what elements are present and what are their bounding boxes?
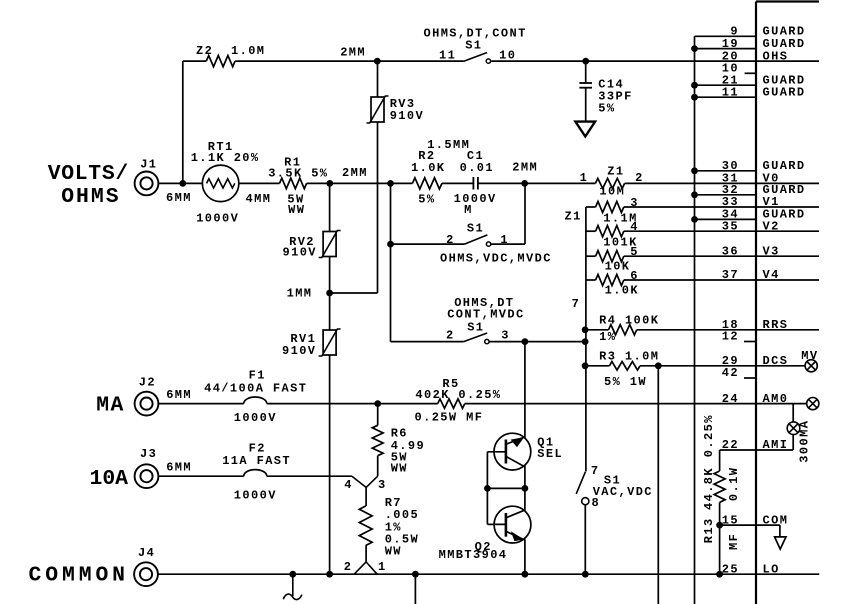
wire Q2 base: [487, 488, 506, 524]
svg-text:1: 1: [580, 171, 589, 185]
svg-text:MF: MF: [727, 533, 741, 550]
wire S1 pin10 to OHS pin 20: [491, 60, 819, 62]
svg-text:36: 36: [722, 244, 739, 258]
node S1 pin8 junction: [582, 571, 589, 578]
connector edge card: [756, 2, 819, 604]
pin 15 net COM: [722, 513, 789, 527]
wire guard pin 21: [691, 82, 756, 89]
svg-text:2: 2: [446, 233, 455, 247]
svg-text:J4: J4: [138, 546, 155, 560]
svg-text:0.1W: 0.1W: [727, 467, 741, 501]
pin 42: [722, 366, 739, 380]
svg-text:R13: R13: [702, 517, 716, 543]
connector J1: [135, 158, 159, 196]
node Q1/Q2 base-emitter tie: [484, 485, 528, 492]
switch S1 OHMS,DT CONT,MVDC pins 2-3: [391, 296, 586, 344]
svg-text:2MM: 2MM: [512, 161, 538, 175]
svg-text:RRS: RRS: [763, 318, 789, 332]
varistor RV2 910V: [319, 231, 341, 258]
svg-text:1: 1: [378, 560, 387, 574]
svg-text:OHMS: OHMS: [61, 185, 120, 209]
resistor R4 100K 1%: [582, 313, 819, 344]
svg-text:V3: V3: [763, 244, 780, 258]
resistor R7 .005 1% 0.5W WW: [359, 487, 419, 562]
wire J2 to F1: [158, 388, 244, 404]
svg-text:R4 100K: R4 100K: [599, 313, 659, 327]
svg-text:12: 12: [722, 330, 739, 344]
wire C1 to Z1 with 2MM label: [478, 161, 596, 184]
svg-text:910V: 910V: [282, 344, 316, 358]
lamp MV indicator DCS: [801, 349, 818, 372]
svg-text:910V: 910V: [390, 109, 424, 123]
wire RT1 to R1 with 4MM label: [239, 183, 280, 206]
node VOLTS/OHMS input label: [48, 162, 129, 209]
svg-text:1000V: 1000V: [454, 192, 497, 206]
resistor R13 44.8K 0.25% 0.1W MF: [702, 414, 741, 574]
svg-text:3: 3: [630, 196, 639, 210]
svg-text:Z1: Z1: [565, 210, 582, 224]
node R3 output junction: [655, 362, 662, 369]
svg-text:S1: S1: [465, 38, 482, 52]
svg-text:6MM: 6MM: [166, 191, 192, 205]
node COM tap junction: [716, 522, 723, 529]
svg-text:6: 6: [630, 269, 639, 283]
node shunt kelvin pins 4-3: [344, 476, 386, 492]
svg-text:37: 37: [722, 268, 739, 282]
svg-text:402K 0.25%: 402K 0.25%: [415, 388, 501, 402]
resistor R5 402K 0.25% 0.25W MF: [415, 377, 502, 424]
wire stub pin 12: [744, 341, 756, 343]
wire S1 pin3 node down to Q1 collector: [524, 342, 526, 438]
node rail junction off-page branch: [412, 571, 419, 604]
wire junction down to S1 OHMS,VDC,MVDC: [390, 183, 392, 341]
pin 25 net LO: [722, 562, 780, 576]
svg-text:10M: 10M: [599, 184, 625, 198]
svg-text:0.01: 0.01: [460, 161, 494, 175]
transistor Q1 SEL: [494, 433, 563, 470]
svg-text:10K: 10K: [605, 259, 631, 273]
svg-text:MV: MV: [801, 349, 818, 363]
svg-text:4MM: 4MM: [246, 192, 272, 206]
svg-text:0.25W MF: 0.25W MF: [415, 411, 484, 425]
svg-text:0.25%: 0.25%: [702, 414, 716, 457]
varistor RV3 910V: [367, 96, 389, 123]
fuse F2 11A FAST 1000V: [222, 441, 291, 502]
svg-text:Z1: Z1: [607, 165, 624, 179]
wire guard pin 32: [691, 191, 756, 198]
node chassis tap junction: [289, 571, 296, 578]
fuse F1 44/100A FAST 1000V: [204, 369, 307, 425]
resistor R2 1.0K 5%: [411, 138, 470, 206]
svg-text:5%: 5%: [598, 101, 615, 115]
pin 36 net V3: [722, 244, 780, 258]
svg-text:1MM: 1MM: [287, 287, 313, 301]
svg-text:WW: WW: [385, 545, 402, 559]
svg-text:2: 2: [344, 560, 353, 574]
capacitor C1 0.01 1000V M: [442, 149, 497, 217]
pin 34 net GUARD: [722, 208, 806, 222]
resistor Z1 1.0K pin 6: [586, 269, 819, 298]
connector J2: [135, 375, 159, 415]
pin 33 net V1: [722, 195, 780, 209]
node LO junction R13 bottom: [716, 571, 723, 578]
svg-text:1000V: 1000V: [234, 411, 277, 425]
pin 18 net RRS: [722, 318, 789, 332]
wire R1 to R2 with 2MM gap: [307, 166, 413, 183]
node S1 pin3 junction to Q1: [522, 338, 529, 345]
svg-text:44.8K: 44.8K: [702, 467, 716, 510]
svg-text:1.0K: 1.0K: [411, 161, 445, 175]
pin 19 net GUARD: [722, 37, 806, 51]
pin 37 net V4: [722, 268, 780, 282]
pin 32 net GUARD: [722, 183, 806, 197]
svg-text:10A: 10A: [90, 467, 129, 491]
wire R1 junction down to RV2: [329, 183, 331, 231]
svg-text:7: 7: [572, 297, 581, 311]
svg-text:5: 5: [630, 245, 639, 259]
svg-text:7: 7: [591, 464, 600, 478]
svg-text:VAC,VDC: VAC,VDC: [593, 485, 653, 499]
svg-text:1.0M: 1.0M: [231, 44, 265, 58]
resistor R1 3.5K 5% 5W WW: [268, 156, 328, 217]
svg-text:MMBT3904: MMBT3904: [439, 548, 508, 562]
wire guard pin 30: [691, 167, 756, 174]
svg-text:3: 3: [501, 328, 510, 342]
svg-text:Z2: Z2: [196, 44, 213, 58]
node shunt kelvin pins 2-1: [344, 560, 387, 574]
node 1MM spark gap junction: [287, 287, 333, 301]
pin 24 net AM0: [722, 392, 789, 406]
wire F1 to R5: [267, 403, 438, 405]
svg-text:8: 8: [592, 496, 601, 510]
pin 30 net GUARD: [722, 159, 806, 173]
wire guard pin 11: [691, 94, 756, 101]
node C1/switch junction 2MM: [521, 180, 528, 187]
svg-text:SEL: SEL: [537, 447, 563, 461]
svg-text:5%: 5%: [418, 192, 435, 206]
svg-text:R3 1.0M: R3 1.0M: [599, 350, 659, 364]
svg-text:CONT,MVDC: CONT,MVDC: [447, 308, 524, 322]
svg-text:1%: 1%: [599, 330, 616, 344]
pin 12: [722, 330, 739, 344]
wire COMMON rail LO pin 25: [158, 573, 820, 575]
svg-text:910V: 910V: [283, 246, 317, 260]
svg-text:GUARD: GUARD: [763, 85, 806, 99]
node Q2 emitter junction: [522, 571, 529, 578]
wire COM row pin 15: [720, 525, 780, 537]
svg-text:6MM: 6MM: [166, 388, 192, 402]
svg-text:J2: J2: [139, 375, 156, 389]
svg-text:J1: J1: [140, 158, 157, 172]
ground COM open arrow: [775, 537, 786, 549]
wire Q2 emitter to COMMON rail: [524, 539, 526, 574]
svg-text:1: 1: [500, 233, 509, 247]
ground C14 earth triangle: [575, 122, 595, 137]
varistor RV1 910V: [319, 329, 341, 356]
pin 29 net DCS: [722, 354, 789, 368]
svg-text:VOLTS/: VOLTS/: [48, 162, 129, 186]
wire RV1 down to COMMON rail: [329, 355, 331, 574]
capacitor C14 33PF 5%: [579, 61, 632, 122]
svg-text:6MM: 6MM: [166, 461, 192, 475]
svg-text:2MM: 2MM: [342, 166, 368, 180]
wire guard bus vertical: [694, 36, 696, 604]
wire AMI row: [720, 449, 794, 451]
wire 1MM link to RV3 column: [330, 292, 378, 294]
node switch-branch junction: [387, 180, 394, 187]
svg-text:35: 35: [722, 219, 739, 233]
wire F2 to shunt pin 4: [267, 475, 352, 477]
svg-text:11A FAST: 11A FAST: [222, 454, 291, 468]
wire R5 to AM0 pin 24: [465, 403, 807, 405]
pin 22 net AMI: [722, 438, 789, 452]
svg-text:1.1K 20%: 1.1K 20%: [191, 151, 260, 165]
wire R3 output down off-page: [657, 366, 659, 604]
wire Z2 to S1 pin11: [235, 60, 464, 62]
wire mid node to Q2 collector: [524, 488, 526, 511]
wire stub pin 42: [744, 377, 756, 379]
resistor Z1 10M pins 1-2: [580, 165, 644, 199]
svg-text:5% 1W: 5% 1W: [604, 375, 647, 389]
svg-text:3: 3: [378, 478, 387, 492]
wire RV3 down to 1MM row: [377, 122, 379, 293]
node S1 mid pin2 junction: [387, 241, 394, 248]
wire 300MA lamp to AMI row: [792, 435, 794, 451]
wire J3 to F2: [158, 461, 244, 477]
svg-text:OHS: OHS: [763, 49, 789, 63]
svg-text:11: 11: [439, 48, 456, 62]
switch S1 OHMS,DT,CONT pins 11-10: [424, 26, 527, 63]
svg-text:S1: S1: [467, 221, 484, 235]
node RV2 tap junction: [326, 180, 333, 187]
thermistor RT1 1.1K 20% 1000V: [191, 140, 260, 225]
svg-text:V4: V4: [763, 268, 780, 282]
svg-text:WW: WW: [391, 462, 408, 476]
wire guard pin 9: [695, 35, 757, 37]
connector J4: [134, 546, 158, 586]
switch S1 VAC,VDC pins 7-8: [576, 464, 653, 574]
node 2MM spark gap top: [340, 46, 380, 65]
resistor Z2 1.0M: [183, 44, 266, 67]
node Z1 ladder common rail pin 7: [565, 207, 586, 472]
pin 35 net V2: [722, 219, 780, 233]
wire Q1 base: [487, 452, 506, 489]
svg-text:3.5K: 3.5K: [268, 167, 302, 181]
connector J3: [135, 447, 159, 488]
resistor Z1 1.1M pin 3: [586, 196, 819, 225]
svg-text:1.0K: 1.0K: [605, 284, 639, 298]
node Z1 pin7 junction: [582, 338, 589, 345]
node junction C14 tap: [582, 58, 589, 65]
switch S1 OHMS,VDC,MVDC pins 2-1: [391, 221, 552, 265]
svg-text:1000V: 1000V: [234, 489, 277, 503]
wire stub pin 10: [745, 72, 756, 74]
svg-text:J3: J3: [140, 447, 157, 461]
svg-text:V2: V2: [763, 219, 780, 233]
ground chassis squiggle: [283, 574, 302, 599]
lamp 300MA indicator: [787, 420, 811, 463]
wire S1 mid pin1 up to main row: [524, 183, 526, 244]
node RV chain junction on rail: [326, 571, 333, 578]
wire AM0 branch down: [792, 404, 794, 423]
wire Q1 emitter to mid node: [524, 466, 526, 489]
resistor R6 4.99 5W WW: [372, 404, 425, 477]
lamp AM0 indicator: [807, 398, 819, 410]
pin 10: [722, 62, 739, 76]
svg-text:300MA: 300MA: [797, 420, 811, 463]
wire guard pin 19: [691, 45, 756, 52]
svg-text:4: 4: [630, 220, 639, 234]
transistor Q2 MMBT3904: [439, 506, 531, 562]
svg-text:2MM: 2MM: [340, 46, 366, 60]
svg-text:11: 11: [722, 85, 739, 99]
svg-text:5%: 5%: [311, 167, 328, 181]
svg-text:WW: WW: [288, 203, 305, 217]
wire J1 branch up-left vertical: [182, 61, 184, 183]
svg-text:DCS: DCS: [763, 354, 789, 368]
svg-text:S1: S1: [467, 321, 484, 335]
pin 9 net GUARD: [730, 25, 805, 39]
resistor R3 1.0M 5% 1W: [582, 350, 805, 389]
svg-text:MA: MA: [96, 394, 125, 418]
resistor Z1 101K pin 4: [586, 220, 819, 250]
pin 11 net GUARD: [722, 85, 806, 99]
pin 20 net OHS: [722, 49, 789, 63]
svg-text:4: 4: [344, 478, 353, 492]
svg-text:1000V: 1000V: [196, 211, 239, 225]
wire J1 to RT1: [158, 182, 202, 184]
wire guard pin 34: [691, 216, 756, 223]
svg-text:44/100A FAST: 44/100A FAST: [204, 381, 307, 395]
svg-text:2: 2: [446, 329, 455, 343]
node J1 junction 6MM: [166, 180, 192, 205]
wire RV2 down to COMMON rail: [329, 257, 331, 331]
svg-text:42: 42: [722, 366, 739, 380]
pin 21 net GUARD: [722, 73, 806, 87]
svg-text:OHMS,VDC,MVDC: OHMS,VDC,MVDC: [440, 252, 552, 266]
resistor Z1 10K pin 5: [586, 245, 819, 273]
svg-text:COMMON: COMMON: [29, 563, 129, 587]
pin 31 net V0: [722, 172, 780, 186]
node R6 tap junction: [374, 400, 381, 407]
wire Z1 pin2 to connector V0 pin 31: [625, 182, 819, 184]
wire 2MM junction down through RV3: [377, 61, 379, 97]
svg-text:M: M: [464, 203, 473, 217]
